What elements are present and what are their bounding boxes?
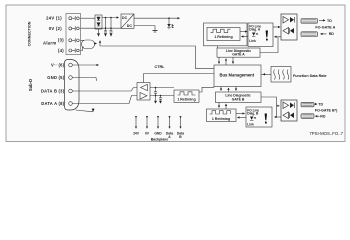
svg-text:Backplane: Backplane: [151, 138, 169, 142]
svg-text:GND: GND: [154, 131, 162, 135]
svg-text:24V: 24V: [133, 131, 140, 135]
svg-text:24V (1): 24V (1): [46, 16, 62, 21]
svg-text:DC: DC: [122, 16, 128, 20]
svg-text:Diag. A: Diag. A: [249, 28, 261, 32]
svg-text:Function Data Rate: Function Data Rate: [293, 74, 327, 78]
svg-text:Sub-D: Sub-D: [28, 79, 33, 91]
svg-text:Link: Link: [249, 39, 256, 43]
svg-text:Alarm: Alarm: [43, 41, 56, 46]
svg-text:(4): (4): [58, 48, 64, 53]
svg-text:7PSI-MOS..FO..7: 7PSI-MOS..FO..7: [309, 131, 343, 136]
svg-text:GATE B: GATE B: [232, 97, 245, 101]
svg-text:TD: TD: [318, 103, 323, 107]
svg-text:GATE A: GATE A: [232, 53, 245, 57]
svg-text:CONNECTION: CONNECTION: [28, 21, 32, 46]
svg-text:FO-GATE B*): FO-GATE B*): [315, 109, 338, 113]
svg-text:(3): (3): [58, 38, 64, 43]
svg-text:Bus Management: Bus Management: [219, 72, 254, 77]
svg-text:1 Retiming: 1 Retiming: [177, 98, 195, 102]
svg-text:Link: Link: [247, 123, 254, 127]
svg-text:TD: TD: [327, 19, 332, 23]
svg-text:RD: RD: [320, 115, 326, 119]
svg-text:DATA B (3): DATA B (3): [41, 88, 65, 93]
svg-text:RD: RD: [329, 32, 335, 36]
svg-text:1 Retiming: 1 Retiming: [214, 35, 232, 39]
svg-text:CTRL: CTRL: [155, 65, 166, 69]
svg-text:GND (5): GND (5): [47, 75, 64, 80]
svg-text:Diag. B: Diag. B: [247, 112, 259, 116]
svg-text:DC: DC: [127, 24, 133, 28]
svg-text:FO-GATE A: FO-GATE A: [315, 26, 335, 30]
svg-text:0V (2): 0V (2): [49, 26, 63, 31]
svg-text:V·· (6): V·· (6): [51, 62, 65, 67]
svg-text:DATA A (8): DATA A (8): [41, 101, 64, 106]
svg-text:1 Retiming: 1 Retiming: [212, 117, 230, 121]
